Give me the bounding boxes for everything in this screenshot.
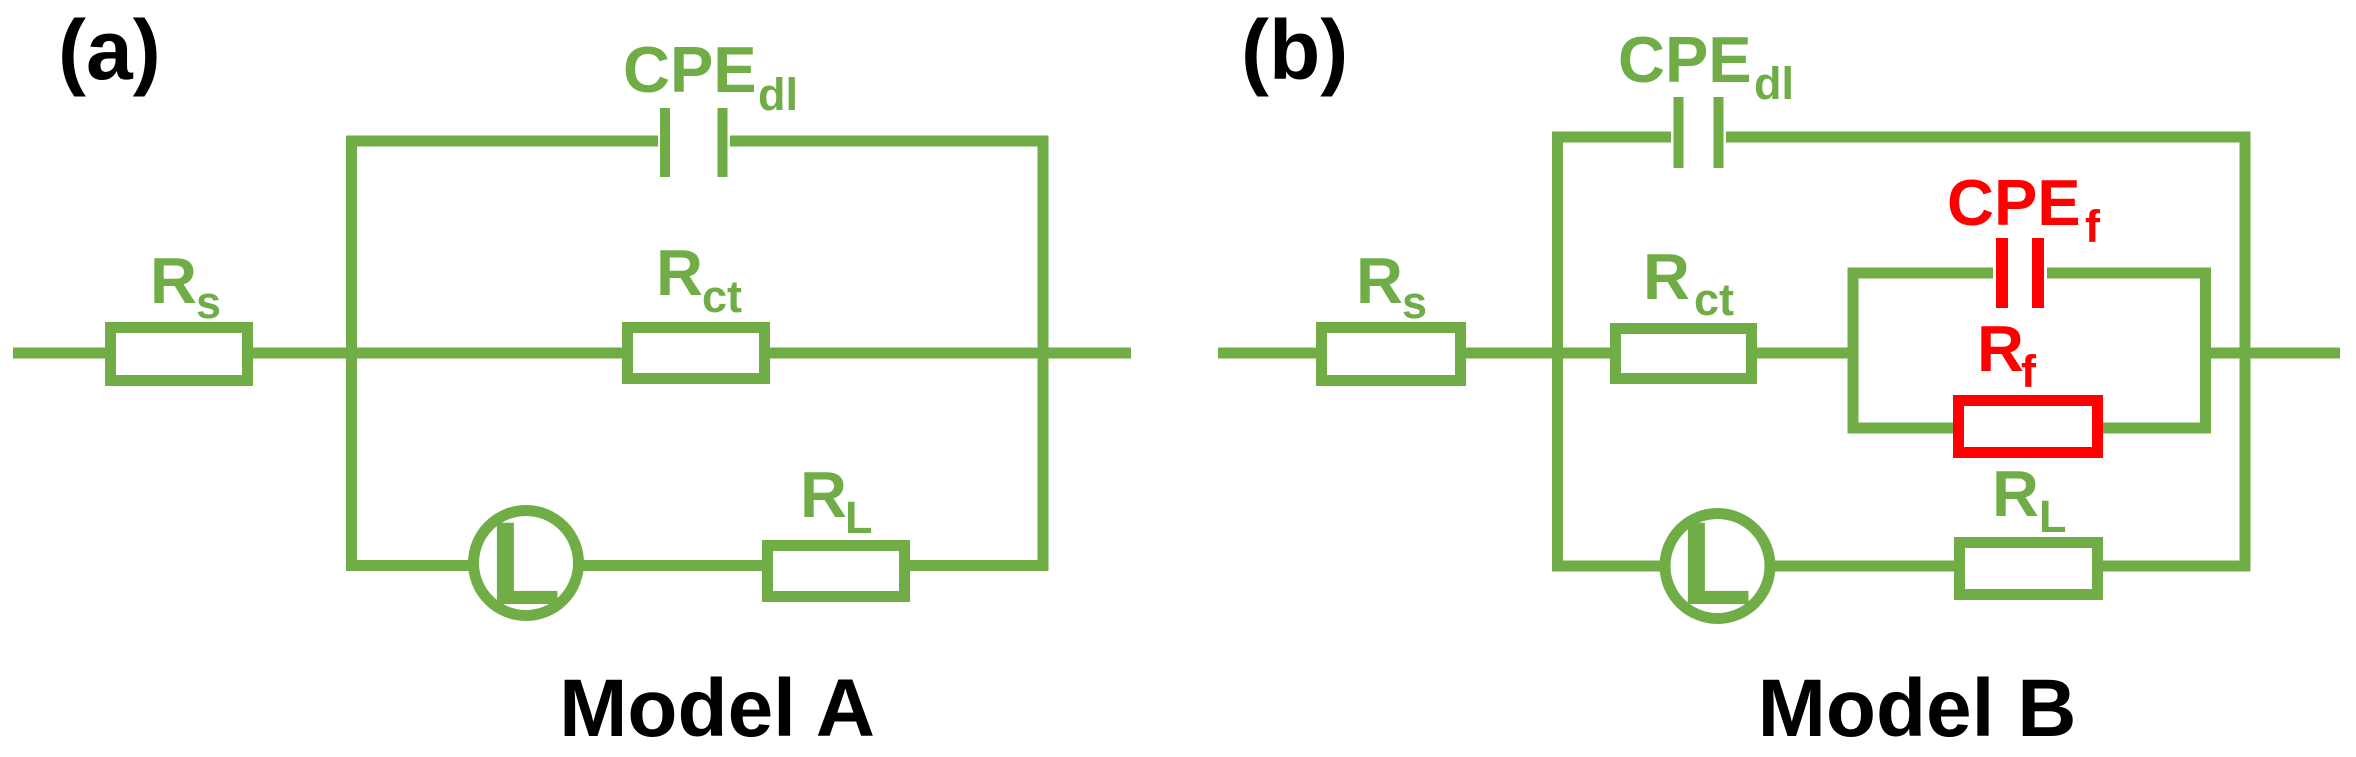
svg-text:L: L bbox=[2039, 491, 2067, 542]
capacitor CPEf plate 1 (red) bbox=[1996, 238, 2008, 308]
inductor L (b) bbox=[1665, 514, 1770, 619]
svg-text:ct: ct bbox=[1694, 274, 1734, 325]
svg-text:(a): (a) bbox=[58, 3, 161, 97]
svg-text:dl: dl bbox=[758, 69, 798, 120]
svg-text:Model A: Model A bbox=[559, 663, 875, 752]
svg-text:s: s bbox=[196, 277, 221, 328]
svg-text:CPE: CPE bbox=[623, 33, 757, 106]
svg-text:Model B: Model B bbox=[1758, 663, 2077, 752]
resistor Rs (a) bbox=[111, 328, 248, 381]
svg-text:ct: ct bbox=[702, 271, 742, 322]
svg-text:s: s bbox=[1402, 277, 1427, 328]
capacitor CPEdl plate 1 bbox=[660, 108, 670, 177]
wire: nested parallel loop panel b bbox=[1853, 273, 2206, 428]
label CPEdl (b) bbox=[1618, 23, 1794, 109]
svg-text:R: R bbox=[1992, 457, 2039, 530]
inductor L (a) bbox=[474, 511, 579, 616]
resistor Rs (b) bbox=[1322, 328, 1461, 381]
label CPEdl bbox=[623, 33, 798, 120]
wire: main horizontal left segment panel b bbox=[1218, 348, 1853, 359]
capacitor CPEdl (b) plate 2 bbox=[1714, 97, 1724, 168]
svg-text:(b): (b) bbox=[1241, 3, 1348, 97]
capacitor CPEf gap patch bbox=[1993, 265, 2047, 282]
label RL (b) bbox=[1992, 457, 2067, 542]
svg-text:L: L bbox=[1680, 498, 1752, 630]
svg-text:CPE: CPE bbox=[1947, 166, 2081, 239]
svg-text:R: R bbox=[800, 458, 847, 531]
svg-text:f: f bbox=[2085, 201, 2101, 252]
wire: main horizontal right segment panel b bbox=[2205, 348, 2340, 359]
label Rct (b) bbox=[1643, 240, 1734, 325]
svg-text:R: R bbox=[1643, 240, 1690, 313]
capacitor CPEdl (b) gap patch bbox=[1671, 129, 1726, 146]
resistor RL (b) bbox=[1960, 543, 2098, 595]
wire: outer parallel loop panel b bbox=[1558, 137, 2246, 566]
capacitor CPEdl (b) plate 1 bbox=[1674, 97, 1684, 168]
capacitor CPEdl gap patch bbox=[658, 133, 730, 150]
svg-text:R: R bbox=[150, 244, 197, 317]
svg-text:dl: dl bbox=[1754, 58, 1794, 109]
label CPEf (red) bbox=[1947, 166, 2101, 252]
svg-text:L: L bbox=[489, 498, 561, 630]
svg-text:R: R bbox=[1356, 244, 1403, 317]
svg-text:R: R bbox=[1977, 312, 2024, 385]
label Rs (a) bbox=[150, 244, 221, 328]
resistor RL (a) bbox=[768, 546, 905, 597]
label Rs (b) bbox=[1356, 244, 1427, 328]
label Rf (red) bbox=[1977, 312, 2037, 397]
svg-text:R: R bbox=[656, 236, 703, 309]
capacitor CPEdl plate 2 bbox=[718, 108, 728, 177]
resistor Rct (a) bbox=[628, 328, 765, 379]
svg-text:L: L bbox=[845, 492, 873, 543]
label Rct (a) bbox=[656, 236, 742, 322]
resistor Rf (red) bbox=[1959, 401, 2098, 453]
wire: main horizontal line panel a bbox=[13, 348, 1131, 359]
svg-text:CPE: CPE bbox=[1618, 23, 1752, 96]
wire: parallel loop panel a (top/left/right/bottom) bbox=[352, 141, 1044, 566]
label RL (a) bbox=[800, 458, 873, 543]
resistor Rct (b) bbox=[1616, 329, 1752, 379]
svg-text:f: f bbox=[2021, 346, 2037, 397]
capacitor CPEf plate 2 (red) bbox=[2032, 238, 2044, 308]
